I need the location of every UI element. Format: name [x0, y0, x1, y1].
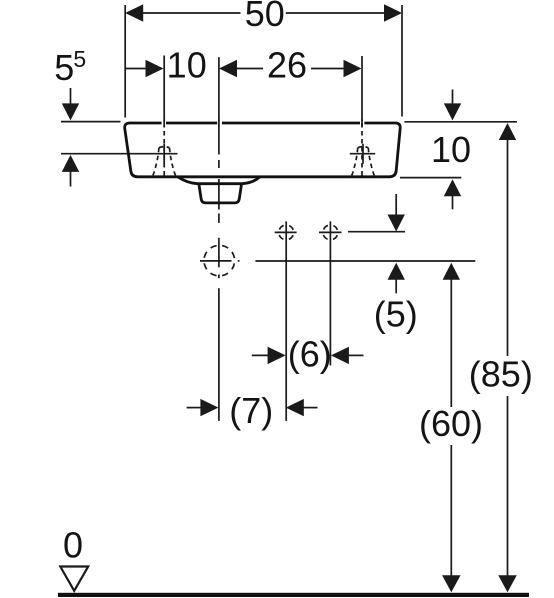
svg-text:(7): (7)	[229, 390, 273, 431]
svg-text:5: 5	[73, 46, 86, 72]
svg-text:5: 5	[54, 47, 74, 88]
svg-text:(5): (5)	[374, 293, 418, 334]
svg-text:50: 50	[245, 0, 285, 34]
svg-text:0: 0	[63, 525, 83, 566]
svg-text:(85): (85)	[469, 353, 533, 394]
svg-text:26: 26	[267, 45, 307, 86]
svg-text:(60): (60)	[419, 403, 483, 444]
svg-text:10: 10	[431, 129, 471, 170]
svg-text:10: 10	[167, 45, 207, 86]
svg-text:(6): (6)	[288, 334, 332, 375]
